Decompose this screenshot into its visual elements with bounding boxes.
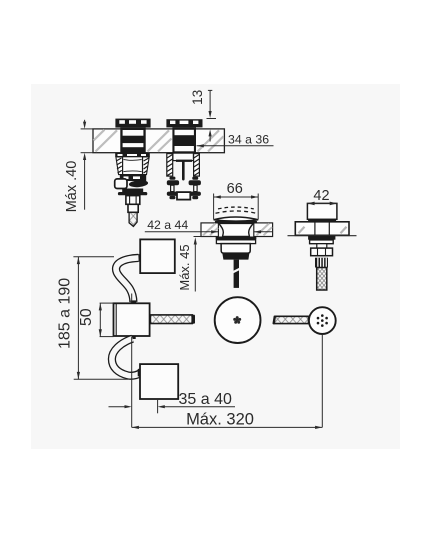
dimension 50: [100, 303, 114, 337]
braided tail hose: [317, 268, 327, 291]
svg-text:Máx .40: Máx .40: [64, 161, 80, 213]
leader 34 a 36: [197, 145, 274, 147]
handle box bottom: [140, 364, 178, 399]
hose A (upper S-hose): [116, 258, 138, 302]
dimension 13: [207, 90, 217, 141]
valve1 band2: [120, 175, 146, 181]
spray holes: [317, 314, 328, 327]
spout-axis extension line: [131, 294, 133, 428]
svg-text:66: 66: [227, 181, 243, 197]
valve2 threaded blocks: [167, 154, 200, 177]
svg-text:13: 13: [190, 90, 205, 105]
dimension 66: [214, 194, 259, 220]
valve1 mid cylinder: [123, 157, 143, 175]
nipple box1: [136, 254, 140, 262]
drain flower center: [233, 316, 241, 324]
thin neck: [317, 244, 327, 248]
svg-text:Máx. 45: Máx. 45: [177, 244, 192, 290]
dimension Máx. 40 (counter thickness): [81, 120, 93, 210]
braided hose segment 2: [274, 316, 309, 324]
svg-text:Máx. 320: Máx. 320: [186, 410, 254, 428]
black collar: [308, 219, 336, 222]
cap top dashed arcs: [216, 211, 257, 213]
svg-text:50: 50: [78, 308, 95, 326]
valve2 body: [172, 127, 196, 153]
svg-text:42: 42: [313, 188, 329, 204]
valve1 side handle (white box + black lever): [115, 179, 127, 189]
valve1 band3: [122, 189, 143, 193]
counter band (cross-section, left): [93, 129, 224, 153]
nipple box2 top: [131, 300, 137, 303]
leader 42 a 44: [145, 231, 272, 233]
valve2 outlet box: [177, 192, 190, 200]
counter piece left of drain: [201, 223, 218, 237]
valve2 under-counter neck: [173, 153, 194, 161]
valve2 center rod: [182, 161, 185, 181]
valve1 upper body: [120, 128, 145, 154]
nipple box2 bottom: [130, 336, 136, 339]
washer: [310, 240, 334, 244]
valve1 threaded tail: [129, 212, 137, 226]
drain neck through hole: [219, 223, 254, 236]
dimension Máx. 320: [132, 334, 323, 427]
threaded section (comb): [315, 258, 328, 268]
drain black base band: [222, 253, 249, 260]
drain cup: [221, 244, 250, 254]
svg-text:185 a 190: 185 a 190: [56, 278, 73, 349]
drain top view circle: [215, 297, 261, 343]
cap lip band: [215, 221, 257, 224]
valve2 cap: [166, 119, 202, 127]
handle box top: [140, 239, 175, 273]
valve2 left bolt stack: [167, 177, 179, 200]
escutcheon flange: [295, 222, 349, 236]
counter surface line: [288, 235, 357, 237]
valve2 right bolt stack: [189, 177, 201, 200]
dimension 185 a 190: [73, 257, 128, 379]
valve1 cap: [115, 119, 150, 128]
hose B (lower S-hose): [112, 339, 141, 376]
hex nut: [311, 248, 333, 256]
drain flange: [216, 237, 257, 240]
svg-text:42 a 44: 42 a 44: [147, 218, 188, 232]
valve2 body bottom bar: [176, 160, 192, 162]
svg-text:35 a 40: 35 a 40: [179, 391, 232, 408]
tail break slash: [232, 268, 240, 272]
valve1 lower flange: [115, 153, 150, 157]
valve1 bottom flange: [118, 192, 147, 195]
spout block: [307, 203, 337, 219]
dimension 35 a 40: [109, 400, 236, 413]
braided hose to drain (segment 1): [150, 315, 195, 324]
cap front lens: [214, 217, 259, 221]
nipple box3: [138, 368, 141, 377]
valve1 threaded side cones: [116, 157, 149, 175]
spray outlet circle: [309, 307, 336, 334]
counter piece right of drain: [254, 223, 273, 237]
drain tail rod: [234, 260, 239, 288]
spout body box2: [114, 303, 150, 336]
under collar: [308, 236, 335, 240]
valve1 hex nut: [126, 196, 140, 205]
dimension Máx. 45: [194, 237, 216, 292]
valve1 washer block: [128, 204, 138, 212]
svg-text:34 a 36: 34 a 36: [228, 132, 269, 146]
scan field: [31, 84, 400, 449]
